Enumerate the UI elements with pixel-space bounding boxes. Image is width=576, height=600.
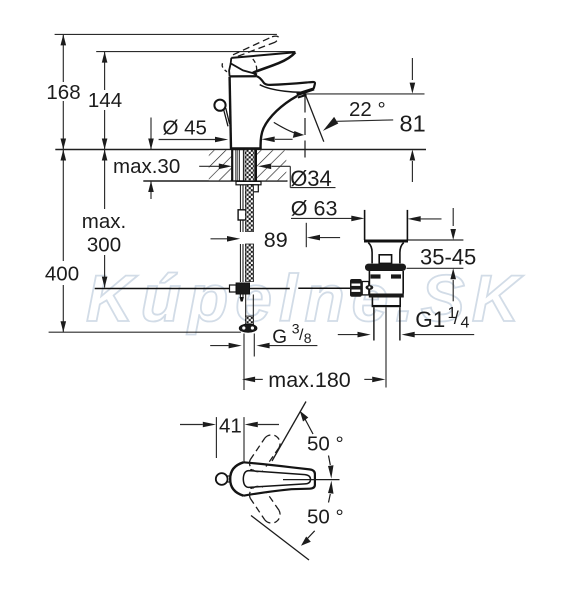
dim 81 (300, 58, 426, 182)
svg-text:50 °: 50 ° (307, 506, 344, 529)
arrow 144 bottom (102, 139, 108, 150)
counter top line (55, 149, 426, 151)
ref line 400 bottom (49, 331, 241, 333)
ref line top (168) (55, 33, 277, 35)
dim line 144/max300 vertical (104, 52, 106, 90)
dim O45 (159, 117, 293, 143)
dim 41 (180, 415, 279, 463)
arrow max300 bottom (102, 277, 108, 288)
svg-text:max.30: max.30 (113, 155, 180, 178)
tailpipe (373, 307, 375, 340)
arrow max30 bottom (148, 181, 154, 192)
svg-text:22 °: 22 ° (349, 98, 386, 121)
svg-text:41: 41 (219, 415, 242, 438)
svg-text:Ø 63: Ø 63 (291, 197, 338, 221)
mounting flange washer (236, 181, 261, 184)
50deg lower (251, 481, 344, 560)
svg-text:8: 8 (304, 330, 312, 346)
body left edge (230, 77, 231, 150)
pull rod lower tip (240, 297, 244, 302)
dashed lever down position (250, 486, 281, 523)
centerline of swing (283, 479, 340, 481)
pull rod slider (238, 210, 246, 220)
handle top view body (230, 462, 315, 495)
arrowheads for left dims (61, 34, 154, 332)
spout top edge (257, 76, 315, 88)
side pull-rod knob (214, 100, 229, 127)
tail centerline (385, 307, 387, 387)
dim 35-45 (407, 208, 477, 301)
dim G3/8 (210, 321, 317, 390)
plug stem square (379, 255, 391, 264)
dim line 168/400 vertical (62, 34, 64, 82)
svg-text:/: / (454, 308, 459, 328)
cartridge dome under lever (253, 73, 257, 76)
svg-text:Ø34: Ø34 (290, 166, 332, 191)
dim O63 (291, 197, 442, 222)
shank threaded band (245, 150, 254, 182)
o-ring collar (365, 264, 406, 271)
svg-text:81: 81 (400, 111, 426, 137)
50deg upper (272, 402, 344, 479)
body joint stripe (369, 294, 404, 298)
arrow max30 top (148, 139, 154, 150)
dim line max30 vertical top (150, 118, 152, 150)
spout centerline dashed (304, 96, 306, 162)
base plate (230, 147, 260, 150)
aerator (296, 87, 314, 96)
arrow 400 bottom (61, 321, 67, 332)
lever handle (solid, down position) (229, 52, 295, 76)
svg-text:50 °: 50 ° (307, 433, 344, 456)
svg-text:168: 168 (46, 81, 80, 104)
shank left edge (231, 150, 233, 182)
svg-text:35-45: 35-45 (420, 245, 476, 270)
dim line max30 vertical bottom (150, 181, 152, 199)
counter hatch right (256, 150, 286, 180)
shank right edge (255, 150, 257, 182)
22deg arc arrow to centerline (274, 122, 297, 133)
lever handle raised (dashed) (233, 36, 279, 57)
counter hatch left (209, 150, 232, 180)
svg-text:89: 89 (264, 228, 288, 252)
ref line spout top (144) (96, 51, 295, 53)
svg-text:4: 4 (461, 315, 470, 332)
arrow max300 top (102, 150, 108, 161)
svg-text:max.180: max.180 (268, 368, 351, 392)
spout underside curve (261, 96, 298, 149)
counter bottom line (143, 180, 287, 182)
dim 89 (211, 223, 341, 252)
svg-text:max.: max. (82, 210, 126, 233)
tailpiece stub (250, 185, 258, 192)
rod clamp at pull rod (236, 283, 249, 294)
plug flange (364, 210, 366, 240)
dim max.180 (242, 368, 386, 392)
arrow 168 top (61, 34, 67, 45)
clevis (362, 282, 369, 295)
neck curves (368, 243, 372, 264)
arrow 144 top (102, 52, 108, 63)
svg-text:G1: G1 (415, 307, 445, 332)
body top / dome base (230, 75, 257, 77)
inner lever outline (243, 471, 310, 488)
22deg ray (305, 93, 324, 142)
lower body (371, 298, 373, 306)
hose end nut (239, 324, 257, 332)
bayonet band (368, 271, 370, 294)
svg-text:G: G (272, 327, 287, 348)
svg-text:300: 300 (87, 233, 121, 256)
svg-text:144: 144 (88, 89, 122, 112)
dim 22deg (274, 93, 393, 162)
arrow 400 below counter (61, 150, 67, 161)
dashed lever up position (250, 435, 281, 472)
svg-text:400: 400 (45, 263, 79, 286)
shank inner lines (235, 150, 237, 182)
arrow 168 bottom / counter (61, 139, 67, 150)
knurled linkage nut (350, 279, 362, 297)
dim O34 leader (199, 164, 335, 192)
top view knob (216, 473, 231, 485)
svg-text:Ø 45: Ø 45 (163, 117, 207, 140)
dim G1 1/4 (338, 305, 474, 337)
spout front edge line (260, 85, 301, 93)
pivot ball (366, 285, 374, 290)
